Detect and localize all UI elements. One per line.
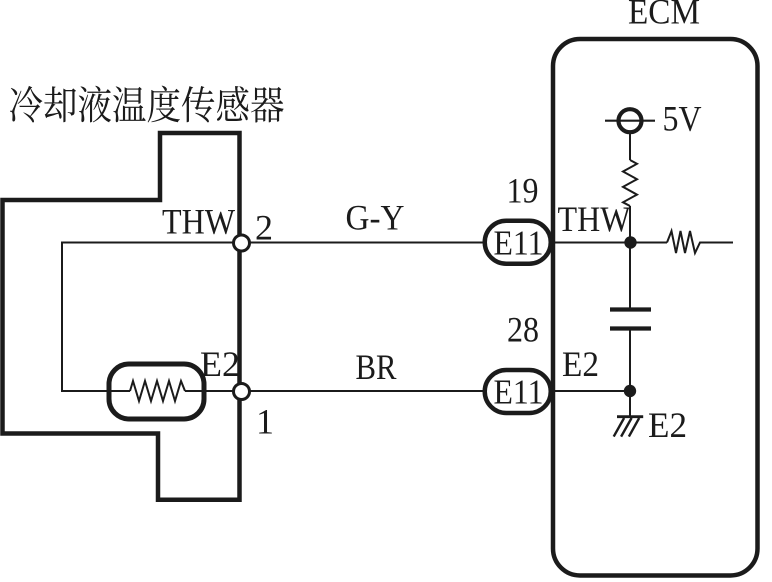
5V supply line through circle	[605, 120, 655, 122]
wire 5V to resistor	[629, 134, 631, 161]
svg-text:E11: E11	[494, 224, 544, 263]
svg-text:THW: THW	[558, 199, 631, 239]
svg-text:G-Y: G-Y	[346, 198, 405, 238]
connector E11 pin 19	[485, 221, 551, 264]
pull-up resistor R1 vertical zigzag	[623, 160, 637, 206]
sensor element rounded box	[109, 364, 204, 419]
svg-text:E11: E11	[494, 373, 544, 412]
wire resistor to node THW	[629, 206, 631, 309]
sensor thermistor R inside sensor: zigzag	[130, 381, 185, 401]
pin 1 terminal circle	[234, 384, 250, 400]
ground hatch lines	[614, 418, 624, 437]
svg-text:BR: BR	[356, 347, 397, 387]
svg-text:5V: 5V	[663, 99, 702, 139]
svg-text:2: 2	[255, 208, 273, 248]
wire inside ECM pin19 row	[520, 242, 667, 244]
connector E11 pin 28	[485, 370, 551, 413]
junction node E2	[624, 385, 636, 397]
svg-text:THW: THW	[162, 202, 235, 242]
wire inside ECM pin28 row	[520, 390, 630, 392]
svg-text:ECM: ECM	[628, 0, 700, 32]
svg-text:1: 1	[256, 402, 274, 442]
wire THW loop (thin): pin2 row, left drop, pin1 row left lead	[62, 243, 483, 392]
junction node THW	[624, 236, 636, 248]
ground symbol bar	[617, 415, 643, 418]
svg-text:19: 19	[507, 171, 539, 211]
capacitor C1 top plate	[610, 307, 651, 311]
wire from thermistor to pin 1	[185, 390, 483, 392]
svg-text:E2: E2	[200, 344, 240, 384]
sensor title text 冷却液温度传感器	[10, 86, 284, 123]
sensor housing outline	[3, 133, 240, 500]
svg-text:28: 28	[507, 310, 539, 350]
5V supply circle	[619, 109, 642, 132]
capacitor C1 bottom plate	[610, 326, 651, 330]
pin 2 terminal circle	[234, 235, 250, 251]
ECM box	[553, 39, 758, 576]
wire capacitor to ground	[629, 329, 631, 417]
svg-text:E2: E2	[562, 344, 599, 384]
svg-text:E2: E2	[648, 405, 687, 445]
resistor R2 horizontal zigzag	[667, 231, 733, 253]
